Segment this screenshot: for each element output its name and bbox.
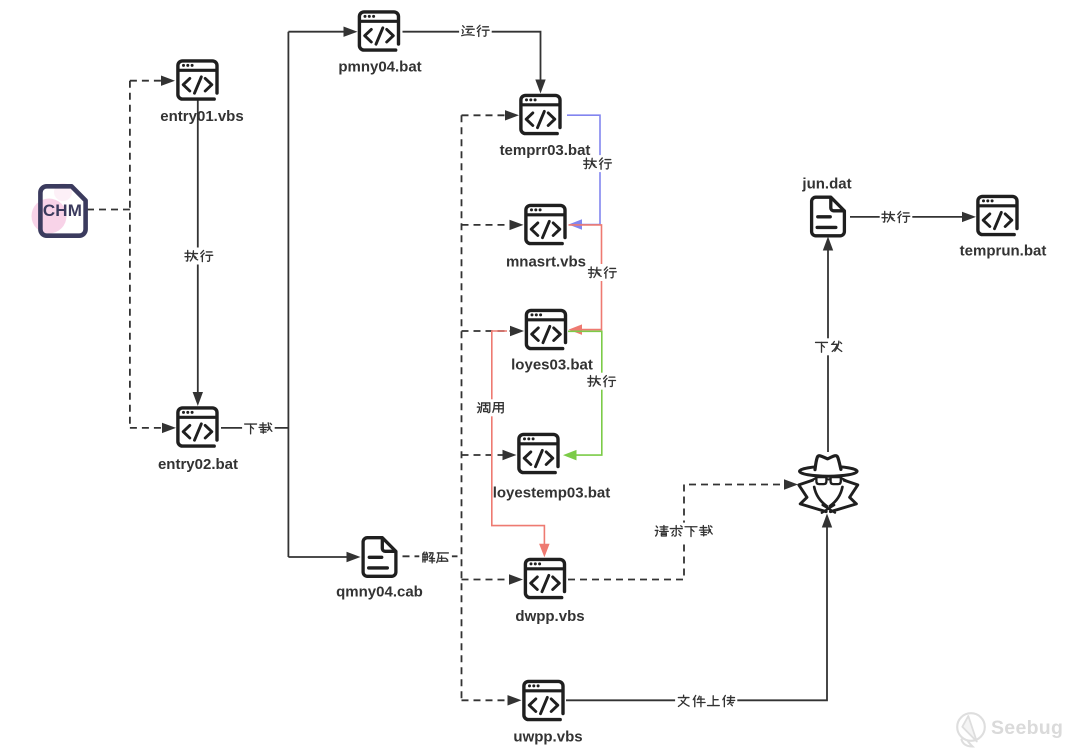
svg-text:temprr03.bat: temprr03.bat — [500, 142, 591, 159]
svg-text:entry02.bat: entry02.bat — [158, 456, 238, 473]
svg-text:uwpp.vbs: uwpp.vbs — [513, 728, 582, 745]
svg-text:dwpp.vbs: dwpp.vbs — [515, 608, 584, 625]
svg-text:qmny04.cab: qmny04.cab — [336, 583, 423, 600]
svg-text:mnasrt.vbs: mnasrt.vbs — [506, 253, 586, 270]
svg-text:jun.dat: jun.dat — [801, 175, 851, 192]
svg-text:CHM: CHM — [43, 201, 82, 220]
svg-text:loyes03.bat: loyes03.bat — [511, 356, 593, 373]
svg-text:Seebug: Seebug — [991, 717, 1063, 739]
svg-text:pmny04.bat: pmny04.bat — [338, 58, 421, 75]
svg-text:entry01.vbs: entry01.vbs — [160, 108, 243, 125]
svg-text:loyestemp03.bat: loyestemp03.bat — [493, 484, 611, 501]
svg-text:temprun.bat: temprun.bat — [960, 242, 1047, 259]
